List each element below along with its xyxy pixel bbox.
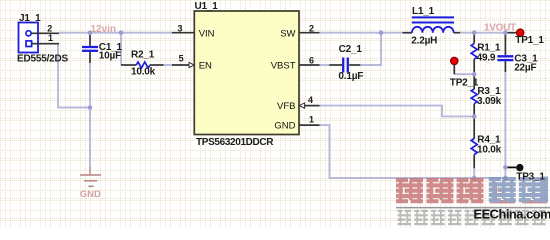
svg-text:3.09k: 3.09k [477, 96, 502, 107]
svg-text:C2_1: C2_1 [339, 44, 363, 55]
node R1 tap on VOUT [472, 30, 477, 35]
svg-text:TPS563201DDCR: TPS563201DDCR [196, 137, 274, 148]
svg-text:0.1µF: 0.1µF [338, 71, 363, 82]
wire 12vin net J1 pin2 to U1 VIN [59, 32, 172, 34]
svg-text:2: 2 [309, 23, 314, 33]
watermark underline [396, 207, 550, 209]
resistor R3_1 [471, 74, 501, 116]
connector J1_1 [17, 13, 69, 64]
pin 6 VBST [299, 55, 320, 65]
svg-text:10.0k: 10.0k [477, 144, 502, 155]
svg-text:TP3_1: TP3_1 [516, 172, 545, 183]
svg-text:5: 5 [179, 54, 184, 64]
svg-text:U1_1: U1_1 [195, 1, 219, 12]
watermark gray chinese row [398, 210, 546, 225]
node ground left [88, 105, 93, 110]
pin 5 EN [172, 54, 194, 68]
svg-text:EEChina.com: EEChina.com [474, 206, 550, 221]
op-amp U1 (IC TPS563201DDCR) [194, 1, 299, 148]
test point TP1_1 [505, 29, 544, 46]
wire VBST pin to C2 [320, 64, 330, 66]
svg-text:2.2µH: 2.2µH [411, 35, 437, 46]
node R2 tap on 12vin [119, 30, 124, 35]
node R1/R3/TP2 [472, 72, 477, 77]
pin 2 SW [299, 23, 320, 33]
svg-text:GND: GND [274, 121, 295, 132]
inductor L1_1 [403, 6, 461, 46]
wire TP2 to feedback node [454, 73, 474, 75]
svg-text:SW: SW [280, 29, 295, 40]
capacitor C3 [497, 33, 538, 74]
svg-text:TP1_1: TP1_1 [515, 35, 544, 46]
svg-text:EN: EN [199, 61, 212, 72]
node R4 on rail [472, 176, 477, 181]
svg-text:1: 1 [309, 114, 314, 124]
wire R2 branch from 12vin [120, 33, 122, 65]
resistor R2_1 [121, 50, 164, 78]
pin 3 VIN [172, 23, 194, 33]
pin 1 GND [299, 114, 320, 125]
node R3/R4/VFB [472, 114, 477, 119]
svg-text:1: 1 [48, 33, 53, 43]
wire C1 bottom to GND port [89, 63, 91, 168]
wire R2 to EN pin [164, 64, 173, 66]
svg-text:49.9: 49.9 [477, 52, 496, 63]
resistor R4_1 [471, 116, 501, 168]
wire C2 to SW junction [360, 33, 381, 65]
svg-text:GND: GND [80, 189, 101, 200]
svg-text:22µF: 22µF [514, 63, 536, 74]
wire J1 pin1 to ground node [58, 44, 90, 108]
wire VOUT net L1 to C3/TP1 [460, 32, 505, 34]
wire GND pin to ground rail [320, 125, 506, 178]
svg-text:VIN: VIN [199, 29, 215, 40]
svg-text:ED555/2DS: ED555/2DS [17, 53, 69, 64]
node C1 tap on 12vin [88, 30, 93, 35]
svg-text:1VOUT: 1VOUT [484, 22, 516, 33]
resistor R1_1 [471, 33, 501, 74]
svg-text:VBST: VBST [271, 61, 296, 72]
pin 4 VFB [299, 95, 319, 108]
svg-text:10.0k: 10.0k [131, 67, 156, 78]
node C2/SW tap [379, 30, 384, 35]
svg-text:10µF: 10µF [99, 51, 121, 62]
svg-text:3: 3 [178, 23, 183, 33]
wire VFB pin to R3/R4 node [320, 106, 475, 117]
node C3 tap on VOUT [503, 30, 508, 35]
test point TP2_1 [450, 57, 479, 88]
svg-text:6: 6 [309, 55, 314, 65]
watermark big characters (red + blue glyph blocks) [396, 177, 548, 204]
test point TP3_1 [507, 164, 524, 171]
svg-text:L1_1: L1_1 [412, 6, 435, 17]
svg-text:R2_1: R2_1 [131, 50, 155, 61]
wire SW net to L1 [320, 32, 403, 34]
node C3/rail corner [503, 176, 508, 181]
svg-text:4: 4 [308, 95, 313, 105]
node TP3 tap [503, 165, 508, 170]
wire R4 bottom to ground rail [473, 168, 475, 178]
wire C3 bottom to ground rail [504, 72, 506, 178]
svg-text:VFB: VFB [277, 101, 295, 112]
capacitor C2 [329, 44, 363, 82]
svg-text:2: 2 [47, 23, 52, 33]
svg-text:12vin: 12vin [91, 24, 117, 35]
capacitor C1 [82, 33, 123, 63]
svg-text:J1_1: J1_1 [19, 13, 41, 24]
ground power port GND [80, 167, 101, 200]
